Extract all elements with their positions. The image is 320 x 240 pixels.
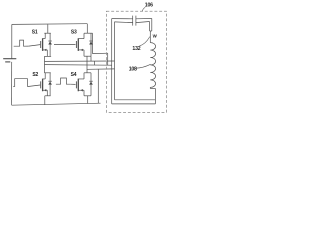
transistor S3: [76, 33, 92, 56]
tank inner loop: [115, 22, 156, 100]
inductor coil 108: [150, 43, 155, 88]
gate pulse S2: [13, 79, 29, 87]
wire L3 left leg lower wire to tank: [45, 64, 112, 67]
tank outer loop: [112, 19, 156, 104]
wire coil bottom: [149, 87, 151, 88]
wire bottom rail: [12, 69, 101, 105]
wire gate S4: [70, 83, 75, 85]
dashed box 106: [106, 11, 166, 112]
wire right leg midpoint: [86, 56, 88, 73]
leader 108: [136, 64, 151, 68]
diode D2: [48, 73, 52, 96]
wire L2 left leg midpoint to tank: [45, 60, 115, 62]
wire L1 node A over to tank: [93, 52, 108, 54]
gate pulse S4: [56, 78, 71, 84]
svg-text:S3: S3: [71, 30, 77, 36]
diode D1: [48, 33, 52, 56]
svg-text:132: 132: [132, 46, 140, 52]
leader 132: [139, 37, 149, 46]
S3 diode-side stub: [90, 56, 92, 61]
svg-text:S2: S2: [32, 72, 38, 78]
diode D3: [89, 33, 93, 56]
transistor S1: [41, 25, 51, 57]
wire L4 right leg to tank: [87, 68, 115, 70]
junction stub L1-L3: [94, 61, 96, 65]
svg-text:106: 106: [145, 3, 153, 9]
transistor S4: [76, 73, 91, 104]
transistor S2: [41, 73, 51, 105]
wire gate S3: [54, 43, 76, 45]
node W joint: [150, 31, 152, 43]
battery V source: [3, 25, 16, 106]
wire top rail: [12, 24, 88, 34]
svg-text:S4: S4: [71, 72, 77, 78]
svg-text:108: 108: [129, 66, 137, 72]
svg-text:W: W: [153, 33, 158, 38]
svg-text:S1: S1: [32, 29, 38, 35]
gate pulse S1: [14, 40, 29, 46]
wire left leg midpoint: [44, 56, 46, 72]
wire L1 drop: [107, 53, 109, 65]
wire gate S1: [29, 45, 41, 47]
leader 106: [142, 7, 145, 11]
diode D4: [89, 73, 93, 96]
capacitor: [133, 16, 136, 26]
wire gate S2: [29, 85, 40, 86]
